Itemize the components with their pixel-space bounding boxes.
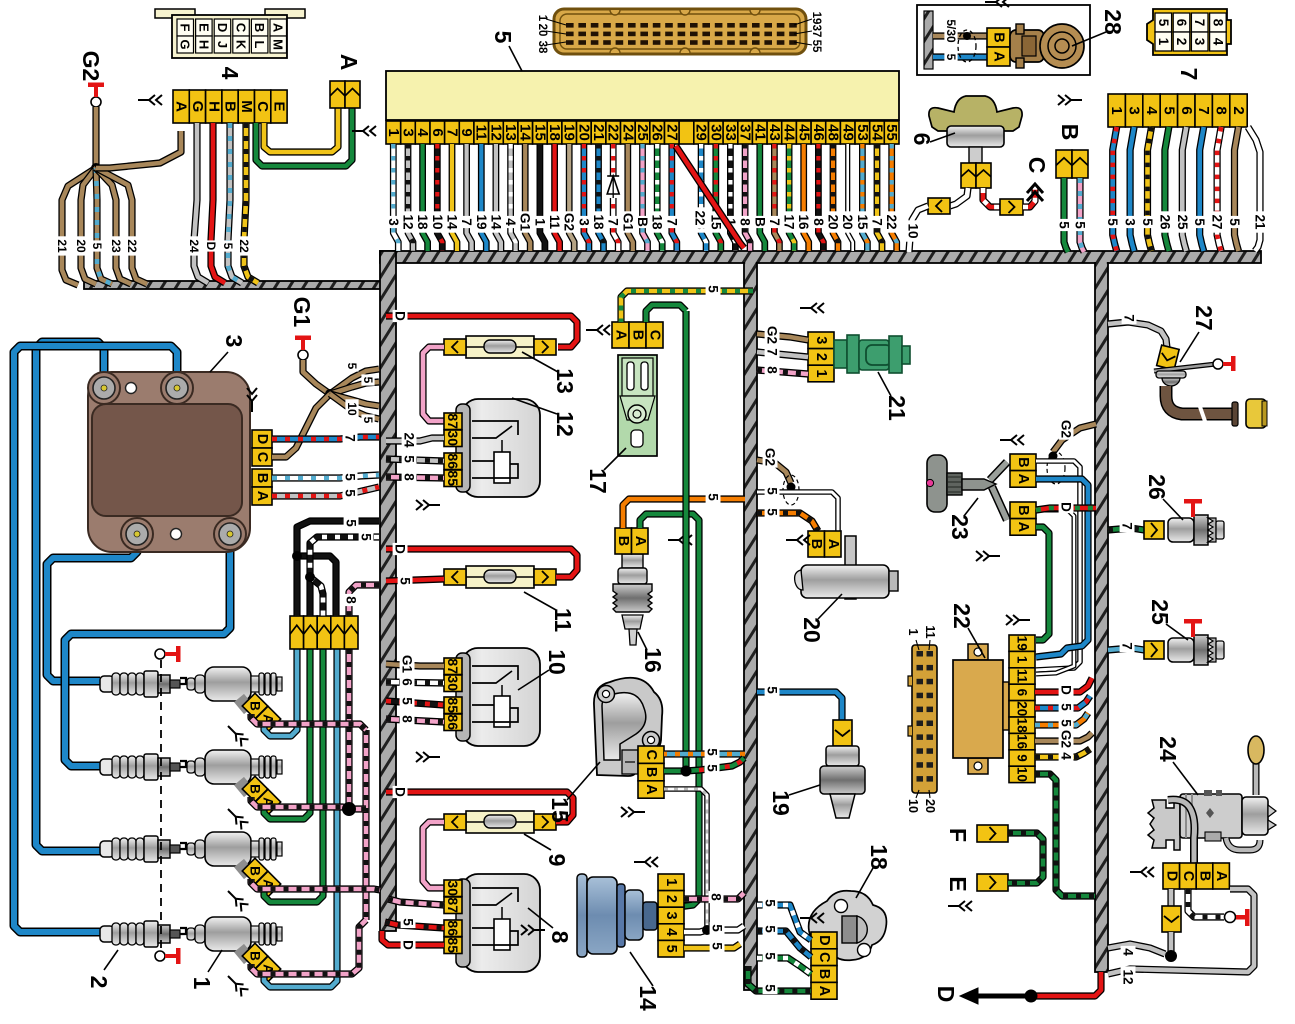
label 15: [547, 762, 600, 823]
svg-text:A: A: [254, 491, 270, 502]
svg-text:B: B: [222, 101, 239, 112]
svg-text:6: 6: [1174, 19, 1189, 27]
injector 1-4: [187, 917, 282, 960]
wire 10 white: [950, 188, 968, 206]
svg-text:10: 10: [906, 799, 920, 813]
wire 22-20: [1035, 696, 1090, 708]
label 3B lab: [343, 471, 358, 483]
svg-text:19: 19: [561, 124, 578, 141]
label ECU pin 44 lab: [782, 211, 797, 232]
label ECU pin 14 lab: [518, 211, 533, 232]
wire 5 gray-blue: [228, 123, 242, 283]
connector of module 3: [252, 430, 272, 505]
connector 4 pins: [173, 90, 288, 123]
junction 20: [787, 483, 796, 492]
wire blkstr2: [310, 577, 323, 616]
connector 7 pins: [1108, 94, 1247, 127]
label ECU pin 49 lab: [840, 211, 855, 232]
label ECU pin 21 lab: [591, 211, 606, 232]
svg-text:19: 19: [1015, 636, 1030, 651]
svg-text:5: 5: [90, 243, 104, 250]
injector connector B/A 1: [242, 693, 280, 731]
svg-text:10: 10: [345, 402, 359, 416]
svg-text:5: 5: [361, 417, 375, 424]
svg-text:4: 4: [217, 67, 243, 80]
wire 15B green: [664, 767, 686, 774]
wire 15C wire: [664, 750, 745, 757]
wire 3D wire: [272, 437, 379, 439]
svg-text:B: B: [1015, 505, 1031, 515]
svg-text:D: D: [933, 986, 959, 1003]
svg-text:20: 20: [575, 124, 592, 141]
wire blk2: [306, 577, 313, 616]
wire 16B orange: [623, 499, 745, 528]
wire 24D gray2: [1167, 932, 1174, 951]
label 18D lab: [763, 897, 778, 909]
svg-text:6: 6: [429, 128, 446, 136]
symbol 21 sym: [800, 303, 824, 313]
svg-text:22: 22: [949, 603, 975, 629]
svg-text:7: 7: [444, 128, 461, 136]
symbol 23 sym dn: [976, 551, 1000, 561]
label 13: [522, 352, 578, 394]
svg-text:3: 3: [221, 335, 247, 348]
connector 14 pins: [658, 874, 684, 957]
svg-text:53: 53: [854, 124, 871, 141]
svg-text:19: 19: [768, 790, 794, 816]
label 15C lab: [705, 746, 720, 758]
svg-text:14: 14: [635, 985, 661, 1011]
svg-text:48: 48: [825, 124, 842, 141]
label 24-4 lab: [1121, 946, 1136, 958]
label 20A lab: [765, 485, 780, 497]
svg-text:20: 20: [799, 617, 825, 643]
svg-text:8: 8: [402, 473, 417, 481]
svg-text:D: D: [1059, 502, 1074, 512]
svg-text:1: 1: [663, 878, 679, 886]
connector 18 pins: [811, 932, 837, 999]
svg-text:6: 6: [909, 133, 935, 146]
wire green 17C-15: [682, 311, 689, 771]
svg-text:A: A: [991, 51, 1007, 62]
label 7 pin 4 lab: [1140, 216, 1155, 228]
svg-text:9: 9: [544, 854, 570, 867]
connector 23 pins lower: [1010, 502, 1036, 535]
label 19 lab: [765, 684, 780, 696]
wire 20B orange: [757, 513, 818, 531]
svg-text:5: 5: [1059, 703, 1074, 711]
label ECU pin 12 lab: [488, 211, 503, 232]
connector 17 pins: [612, 322, 663, 348]
svg-text:11: 11: [473, 125, 490, 141]
svg-text:10: 10: [1015, 767, 1030, 782]
wire pink f9: [423, 822, 444, 888]
svg-text:24: 24: [402, 432, 417, 448]
symbol 24 sym: [1130, 867, 1154, 877]
wire ECU 27 red diag: [676, 146, 744, 248]
svg-text:8: 8: [1210, 19, 1225, 27]
label 3A lab: [343, 487, 358, 499]
svg-text:G: G: [189, 101, 206, 113]
injector 1-3: [187, 832, 282, 875]
svg-text:B: B: [1057, 124, 1083, 141]
wire 10 white b: [909, 206, 928, 252]
svg-text:B: B: [248, 701, 263, 711]
symbol 22 sym: [1006, 615, 1030, 625]
svg-text:16: 16: [796, 214, 811, 230]
label 17A lab: [706, 283, 721, 295]
wire 21-3 brown: [757, 334, 808, 340]
wire 21 to bar: [62, 168, 96, 285]
svg-text:49: 49: [839, 124, 856, 141]
label 27 lab: [1122, 312, 1137, 324]
component 20 body: [795, 536, 898, 599]
wire r12 5: [386, 459, 444, 461]
wire r8 87: [388, 899, 444, 905]
svg-text:5: 5: [343, 489, 358, 497]
svg-text:H: H: [205, 101, 222, 112]
connector 21 pins: [808, 332, 834, 382]
symbol 18 sym: [800, 913, 824, 923]
label ECU pin 7 lab: [445, 211, 460, 232]
svg-text:3: 3: [663, 911, 679, 919]
svg-text:1: 1: [1015, 656, 1030, 664]
label 7 pin 2 lab: [1227, 216, 1242, 228]
svg-text:G1: G1: [620, 213, 635, 232]
label G1: [289, 297, 315, 328]
svg-text:5: 5: [765, 487, 780, 495]
injector connector B/A 4: [242, 943, 280, 981]
label Df11: [393, 543, 408, 555]
svg-text:38: 38: [536, 41, 548, 54]
svg-text:11: 11: [550, 608, 576, 633]
wire ECU pin 4: [423, 144, 428, 251]
svg-text:7: 7: [1176, 68, 1202, 81]
label ECU pin 46 lab: [811, 216, 826, 228]
label F: [945, 828, 971, 842]
wire r12 8: [386, 477, 444, 478]
svg-text:37: 37: [737, 124, 754, 141]
label 7 pin 6 lab: [1175, 211, 1190, 232]
wire inj3 green: [264, 649, 323, 902]
label 15B lab: [705, 762, 720, 774]
wire ECU pin 29: [701, 144, 706, 251]
svg-text:D: D: [393, 787, 408, 797]
wire 21-1 pink: [757, 370, 808, 374]
symbol inj sym 3: [224, 887, 248, 911]
wire 18B: [757, 958, 811, 974]
wire F-E loop: [1008, 833, 1043, 883]
svg-text:5: 5: [663, 945, 679, 953]
wire 28 blue 5: [933, 53, 987, 60]
svg-text:85: 85: [445, 470, 461, 486]
wire r8 86: [385, 922, 444, 928]
label w22: [125, 236, 139, 255]
wire 14-2 pink: [684, 893, 744, 899]
component 14 (MAF sensor): [577, 874, 657, 957]
wire 7 pin 1: [1113, 127, 1117, 251]
wire 7 pin 2: [1235, 127, 1239, 251]
wire 27 wire: [1108, 322, 1167, 348]
shield ellipse 23: [1047, 452, 1065, 484]
wire r8 85: [382, 931, 444, 945]
label ECU pin 3 lab: [401, 211, 416, 232]
svg-text:C: C: [643, 749, 659, 760]
wire ECU pin 24: [628, 144, 633, 251]
injector 1-2: [187, 750, 282, 793]
label ECU pin 26 lab: [650, 211, 665, 232]
svg-text:B: B: [643, 767, 659, 777]
svg-text:B: B: [1197, 871, 1213, 881]
component 27 body: [1154, 356, 1267, 428]
label 22-6 lab: [1059, 684, 1074, 696]
label 14-4 lab: [710, 922, 725, 934]
label 18C lab: [763, 923, 778, 935]
svg-text:A: A: [1015, 474, 1031, 485]
wire 26 wire: [1108, 528, 1144, 530]
label ECU pin 29 lab: [694, 211, 709, 232]
svg-text:5: 5: [1227, 218, 1242, 226]
wire G2 feed: [92, 107, 99, 168]
svg-text:16: 16: [1015, 734, 1030, 750]
svg-text:5: 5: [400, 697, 415, 705]
connector 28 pins: [987, 28, 1010, 66]
wire HV plug3: [36, 342, 104, 851]
svg-text:1: 1: [536, 15, 548, 22]
junction 28: [963, 32, 971, 40]
component 6 (idle air control): [929, 96, 1022, 163]
wire G1 br2: [330, 382, 379, 394]
svg-text:A: A: [825, 539, 841, 550]
wire ECU pin 7: [452, 144, 457, 251]
harness bar main-top: [380, 251, 1261, 263]
label ECU pin 55 lab: [884, 211, 899, 232]
wire D red f9: [386, 792, 573, 822]
label w21r: [1253, 211, 1268, 232]
wire 17A yg: [621, 291, 753, 322]
svg-text:21: 21: [55, 239, 69, 253]
svg-text:B: B: [248, 866, 263, 876]
svg-text:22: 22: [693, 210, 708, 225]
relay 12: [444, 399, 540, 497]
svg-text:87: 87: [445, 413, 461, 429]
svg-text:18: 18: [1015, 718, 1030, 734]
wire 18C: [757, 931, 811, 957]
symbol 16 sym: [668, 535, 692, 545]
junction G1: [325, 389, 335, 399]
label ECU pin 30 lab: [708, 211, 723, 232]
wire 15B green-red: [686, 758, 744, 771]
wire inj4 pink: [251, 920, 366, 974]
svg-text:3: 3: [813, 336, 829, 344]
connector of 6: [961, 163, 991, 188]
wire 15A wire: [664, 789, 707, 930]
svg-text:8: 8: [738, 218, 753, 226]
svg-text:7: 7: [606, 218, 621, 226]
svg-text:5: 5: [706, 285, 721, 293]
svg-text:5: 5: [490, 31, 516, 44]
diode on pin 22 wire: [607, 176, 619, 198]
junction injector pink: [342, 802, 356, 816]
label 7 pin 3 lab: [1123, 216, 1138, 228]
symbol 23 sym up: [1000, 435, 1024, 445]
label r10-8: [400, 713, 415, 725]
svg-text:B: B: [752, 217, 767, 227]
svg-text:4: 4: [1059, 752, 1074, 760]
svg-text:A: A: [336, 54, 362, 71]
label G2: [78, 51, 104, 82]
svg-text:21: 21: [1253, 214, 1268, 230]
wire ECU pin 30: [716, 144, 721, 251]
junction 14-4: [702, 925, 712, 935]
svg-text:6: 6: [1178, 106, 1195, 114]
label 17: [585, 448, 626, 494]
wire ECU pin 1: [393, 144, 398, 251]
label 21-3 lab: [765, 324, 780, 345]
arrow to C: [1027, 184, 1043, 201]
svg-text:H: H: [196, 40, 211, 49]
connector 16 pins: [615, 528, 648, 554]
inline connector on 24-D wire: [1162, 906, 1181, 932]
label 22-9 lab: [1059, 750, 1074, 762]
junction G2: [91, 163, 101, 173]
svg-text:5/30: 5/30: [944, 19, 958, 43]
label 24-12 lab: [1121, 966, 1136, 987]
fuse 11: [444, 566, 556, 588]
label 27: [1180, 305, 1217, 362]
label 23D lab: [1059, 501, 1074, 513]
svg-text:23: 23: [947, 514, 973, 540]
symbol near 28: [985, 0, 1009, 7]
label ECU pin 20 lab: [576, 216, 591, 228]
svg-text:2: 2: [1230, 106, 1247, 114]
svg-text:3: 3: [1126, 106, 1143, 114]
wire inj3 pink: [251, 879, 380, 890]
shield ellipse 20: [783, 475, 799, 505]
wire 24 12 wire: [1108, 889, 1254, 974]
wire 22 to bar: [96, 168, 147, 284]
label D: [933, 986, 959, 1003]
wire ECU pin 46: [818, 144, 823, 251]
svg-text:24: 24: [619, 124, 636, 141]
svg-text:25: 25: [1147, 599, 1173, 625]
label 6: [909, 133, 955, 146]
label 7 pin 7 lab: [1192, 216, 1207, 228]
svg-text:20: 20: [923, 799, 937, 813]
label Df9: [393, 786, 408, 798]
component 25: [1144, 641, 1164, 659]
svg-text:86: 86: [445, 453, 461, 469]
wire G1 stem: [303, 360, 330, 394]
wire B green 5: [1064, 178, 1068, 252]
wire 18D: [757, 905, 811, 940]
connector 7 block: [1147, 9, 1231, 55]
svg-text:5: 5: [1105, 218, 1120, 226]
wire inj4 teal: [264, 649, 337, 987]
svg-text:55: 55: [883, 124, 900, 141]
label 22-18 lab: [1059, 717, 1074, 729]
connector 15 pins: [638, 746, 664, 798]
svg-text:45: 45: [795, 124, 812, 141]
symbol 15 sym: [621, 807, 645, 817]
svg-text:2: 2: [1174, 38, 1189, 46]
wire 24C striped: [1188, 889, 1224, 917]
label G1w3: [345, 399, 359, 418]
symbol r12 sym: [416, 500, 440, 510]
label ECU pin 18 lab: [547, 211, 562, 232]
wire ECU pin 43: [774, 144, 779, 251]
label E: [945, 876, 971, 891]
label 26 lab: [1120, 520, 1135, 532]
label wB5a: [1057, 219, 1072, 231]
label 3: [210, 335, 247, 372]
wire ECU pin 20: [584, 144, 589, 251]
wire 5 striped to bar: [96, 168, 112, 284]
svg-text:7: 7: [767, 218, 782, 226]
svg-text:85: 85: [445, 697, 461, 713]
connector block A: [330, 81, 360, 108]
label 21-1 lab: [765, 364, 780, 376]
svg-text:13: 13: [552, 368, 578, 394]
wire 21 white right: [1248, 127, 1260, 251]
svg-text:21: 21: [590, 124, 607, 141]
svg-text:1: 1: [189, 977, 215, 990]
wire ECU pin 48: [833, 144, 838, 251]
svg-text:8: 8: [765, 366, 780, 374]
connector F cell: [977, 825, 1008, 842]
wire 17C green: [646, 305, 686, 322]
svg-text:G1: G1: [518, 213, 533, 232]
svg-text:20: 20: [74, 239, 88, 253]
svg-text:11: 11: [547, 215, 562, 230]
label ECU pin 6 lab: [430, 211, 445, 232]
label A: [336, 54, 362, 71]
svg-text:M: M: [271, 39, 286, 50]
label 20: [799, 594, 842, 643]
junction D: [1025, 990, 1038, 1003]
svg-text:3: 3: [1123, 218, 1138, 226]
svg-text:5: 5: [765, 686, 780, 694]
svg-text:2: 2: [663, 895, 679, 903]
harness bar thin-left: [84, 281, 384, 289]
svg-text:22: 22: [125, 239, 139, 253]
wire E yellow loop: [264, 108, 338, 152]
svg-text:7: 7: [1195, 106, 1212, 114]
label 5: [490, 31, 523, 73]
svg-text:1: 1: [813, 369, 829, 377]
wire 21-2 gray: [757, 352, 808, 357]
wire 22 yellow-black: [244, 123, 258, 283]
svg-text:86: 86: [445, 920, 461, 936]
wire inj2 pink: [251, 797, 366, 809]
label r10-G1: [400, 653, 415, 674]
label 21: [878, 372, 910, 421]
component 18 (idle actuator): [809, 891, 887, 961]
svg-text:14: 14: [445, 214, 460, 230]
label r10-5: [400, 695, 415, 707]
svg-text:3: 3: [386, 218, 401, 226]
svg-text:87: 87: [445, 897, 461, 913]
svg-text:6: 6: [1015, 689, 1030, 697]
wire 22-18: [1035, 713, 1088, 725]
wire G1 br3: [330, 394, 379, 406]
wire 23 upperA blue: [1036, 479, 1088, 657]
svg-text:A: A: [1015, 522, 1031, 533]
wire 3A wire: [272, 487, 379, 496]
svg-text:F: F: [178, 24, 193, 32]
label r12-8: [402, 471, 417, 483]
svg-text:5: 5: [705, 748, 720, 756]
